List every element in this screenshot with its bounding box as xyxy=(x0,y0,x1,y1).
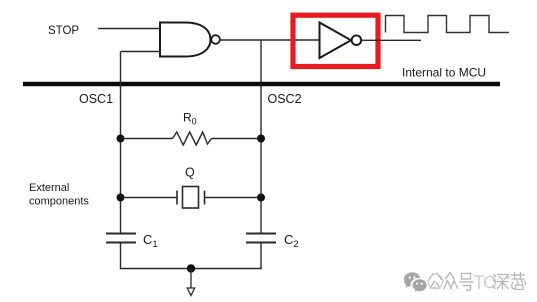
svg-text:Internal to MCU: Internal to MCU xyxy=(402,66,486,80)
ground xyxy=(187,269,194,296)
resistor R0 xyxy=(121,132,262,145)
nand-gate U1 xyxy=(160,23,220,57)
capacitor C2 xyxy=(246,234,276,243)
junction node crystal left xyxy=(117,194,125,202)
dot separator xyxy=(484,282,486,284)
letter O xyxy=(484,276,495,287)
wire STOP to NAND top input xyxy=(98,28,160,30)
node junction OSC2 tap xyxy=(260,40,262,84)
wire left rail below C1 xyxy=(120,243,122,269)
glyph shen xyxy=(493,275,508,290)
glyph hao xyxy=(460,274,474,291)
wire inverter output xyxy=(362,39,422,41)
clock waveform xyxy=(386,16,510,33)
glyph xin/ke overlap xyxy=(511,273,526,290)
wire NAND output to inverter xyxy=(220,39,320,41)
junction node ground tap xyxy=(187,264,195,272)
glyph zhong xyxy=(444,273,458,289)
wire left rail OSC1 xyxy=(120,52,122,234)
MCU boundary thick line xyxy=(23,82,500,87)
capacitor C1 xyxy=(106,234,136,243)
crystal Q xyxy=(121,187,262,209)
junction node R0 right xyxy=(257,135,265,143)
wire right rail OSC2 xyxy=(260,84,262,233)
svg-text:OSC2: OSC2 xyxy=(268,92,302,106)
svg-text:OSC1: OSC1 xyxy=(79,92,113,106)
wire NAND bottom input xyxy=(121,51,161,53)
svg-text:components: components xyxy=(29,196,89,208)
highlight red box xyxy=(293,15,378,66)
letter T xyxy=(475,276,484,289)
junction node R0 left xyxy=(117,135,125,143)
svg-text:STOP: STOP xyxy=(48,25,79,37)
glyph gong xyxy=(429,273,442,288)
svg-text:Q: Q xyxy=(185,166,195,180)
watermark text (vector pseudo-glyphs) xyxy=(428,273,525,291)
watermark wechat icon xyxy=(404,272,427,292)
inverter U2 xyxy=(320,23,362,59)
svg-text:External: External xyxy=(29,182,69,194)
wire right rail below C2 xyxy=(260,243,262,269)
wire bottom xyxy=(121,268,262,270)
junction node crystal right xyxy=(257,194,265,202)
